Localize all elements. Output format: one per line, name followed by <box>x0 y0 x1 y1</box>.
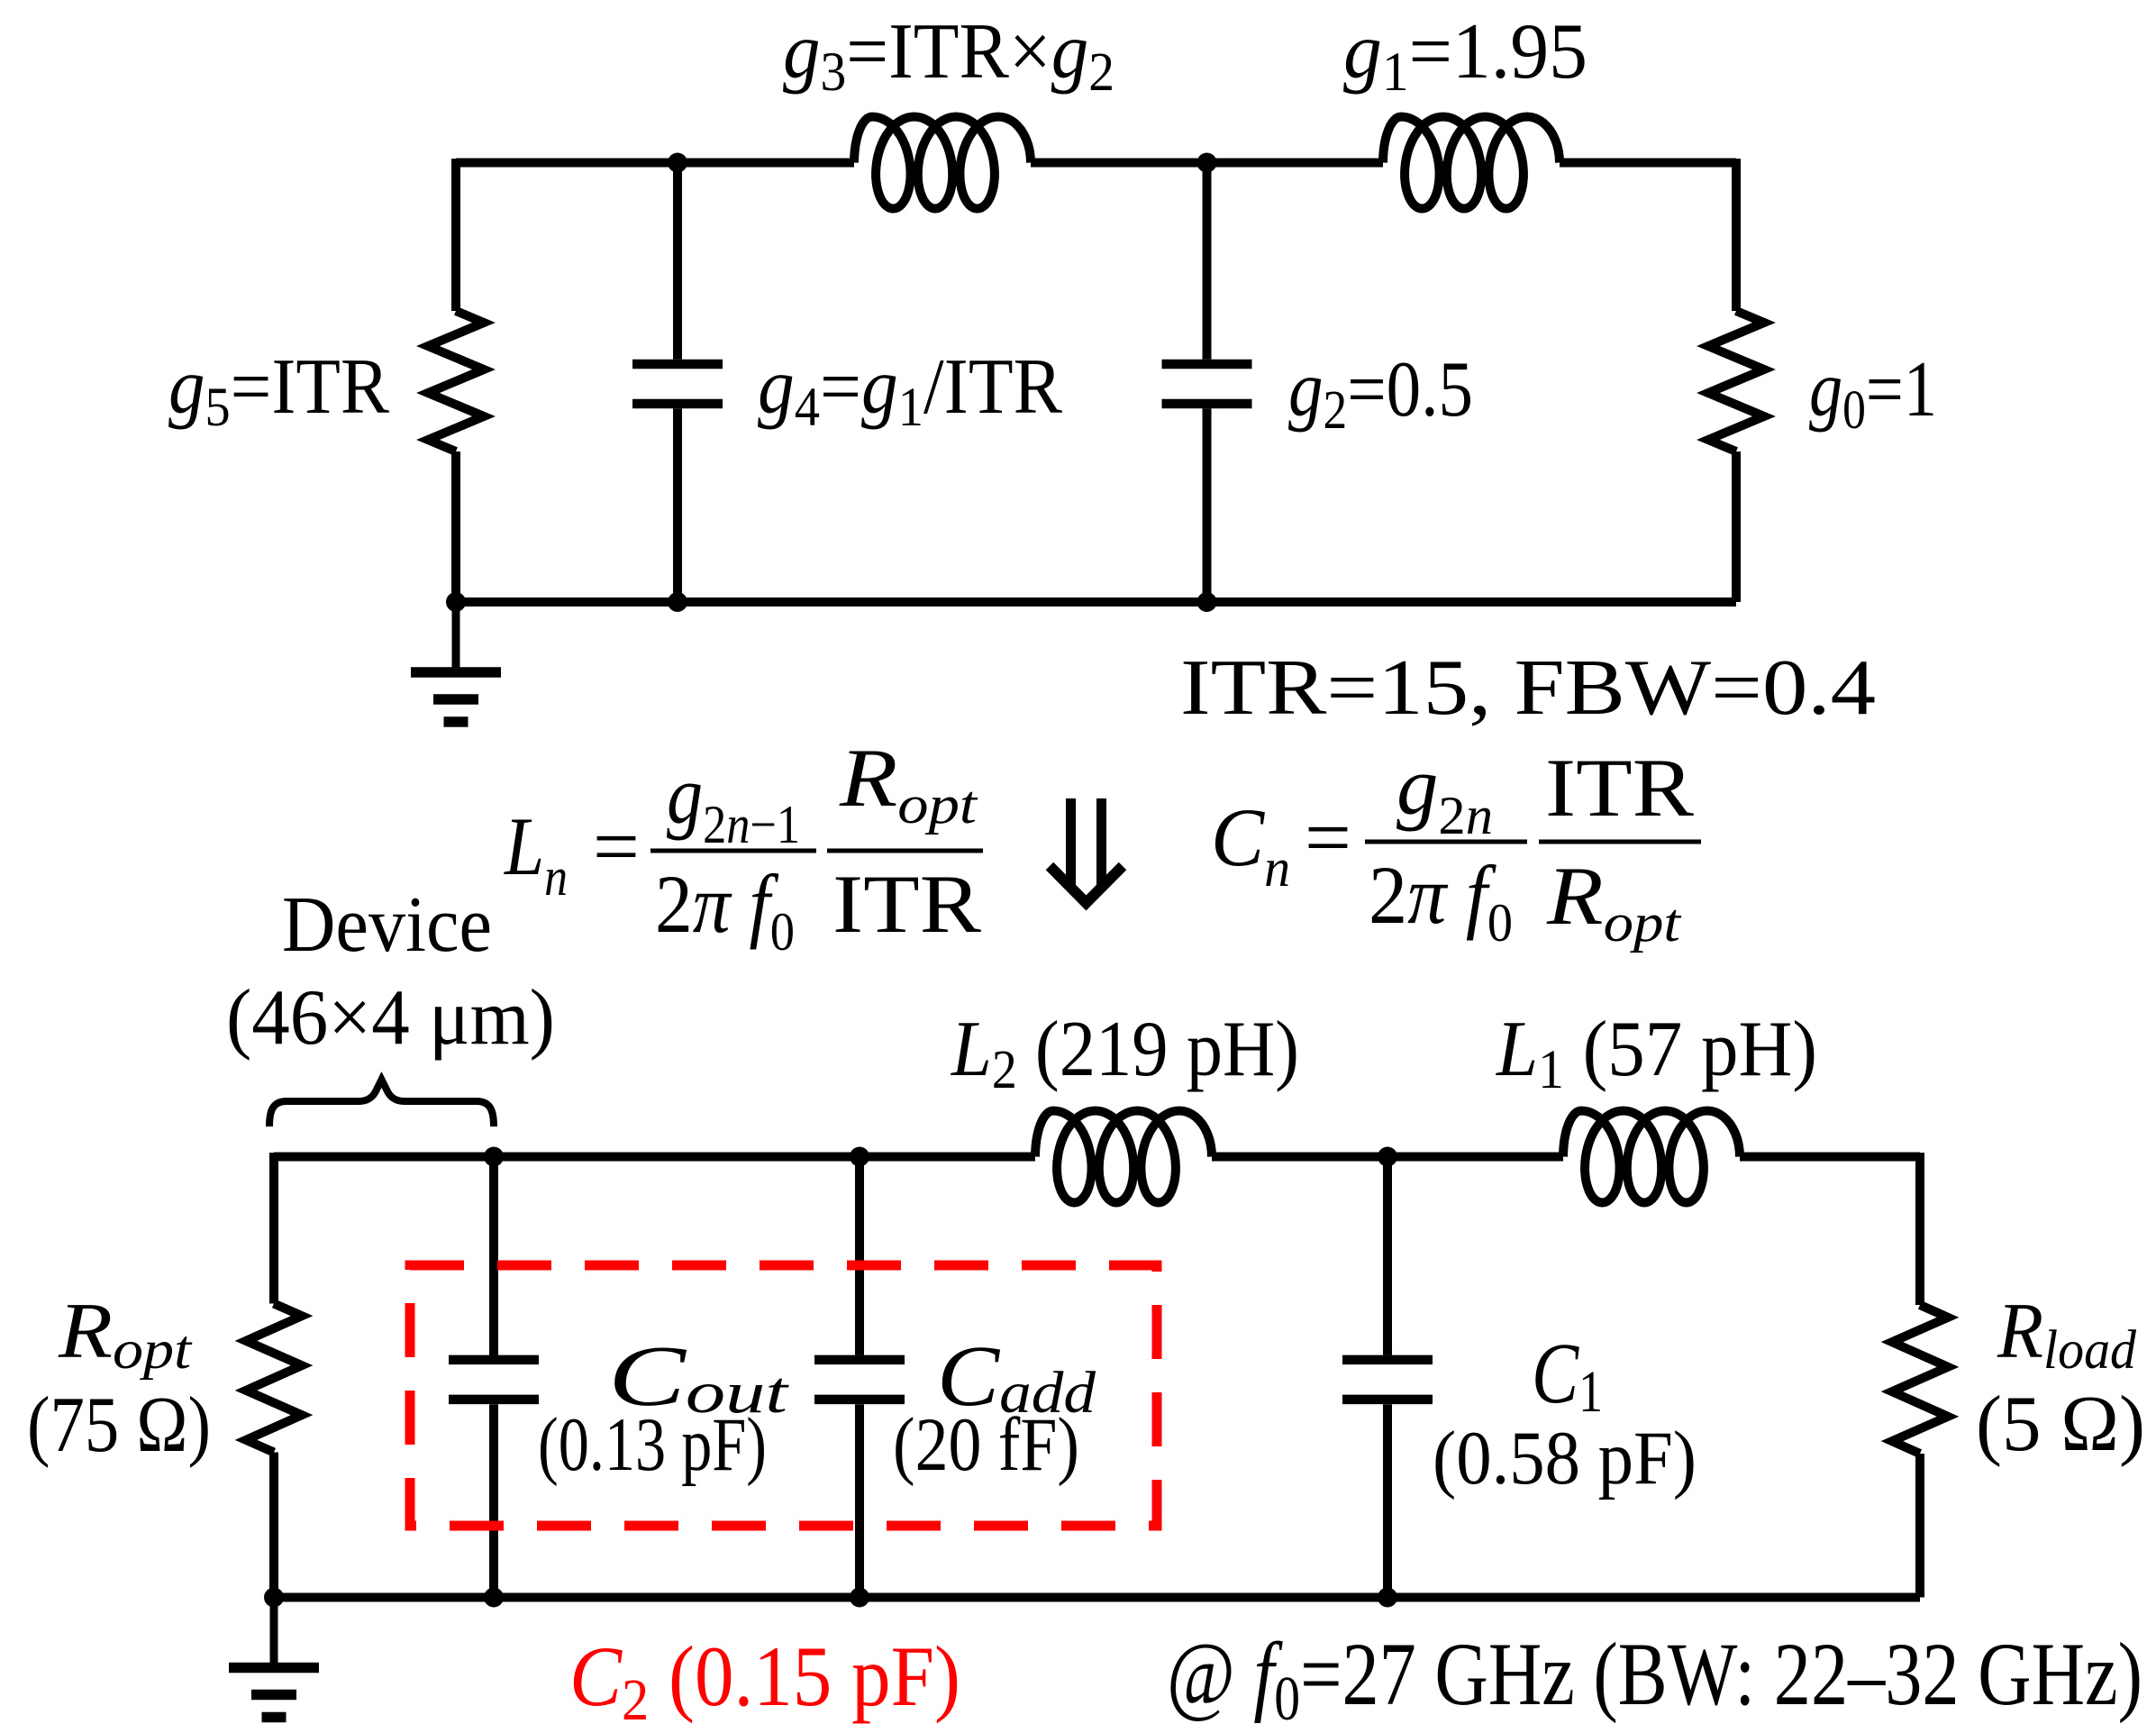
svg-text:=: = <box>593 800 640 892</box>
svg-text:@ f0=27 GHz (BW: 22–32 GHz): @ f0=27 GHz (BW: 22–32 GHz) <box>1167 1624 2142 1733</box>
svg-text:(0.13 pF): (0.13 pF) <box>538 1402 767 1487</box>
svg-text:ITR: ITR <box>832 858 982 950</box>
svg-text:ITR: ITR <box>1545 742 1695 834</box>
svg-text:(5 Ω): (5 Ω) <box>1976 1381 2145 1468</box>
svg-text:(75 Ω): (75 Ω) <box>27 1382 211 1469</box>
svg-text:(46×4 μm): (46×4 μm) <box>226 974 555 1062</box>
svg-text:=: = <box>1305 791 1351 883</box>
svg-text:g5=ITR: g5=ITR <box>168 343 389 438</box>
svg-text:g0=1: g0=1 <box>1809 346 1937 441</box>
svg-text:g2=0.5: g2=0.5 <box>1288 346 1473 441</box>
svg-text:ITR=15, FBW=0.4: ITR=15, FBW=0.4 <box>1180 644 1876 732</box>
svg-text:Device: Device <box>282 881 492 969</box>
svg-text:g1=1.95: g1=1.95 <box>1343 8 1587 103</box>
svg-text:(0.58 pF): (0.58 pF) <box>1433 1416 1697 1500</box>
svg-text:(20 fF): (20 fF) <box>893 1402 1079 1487</box>
